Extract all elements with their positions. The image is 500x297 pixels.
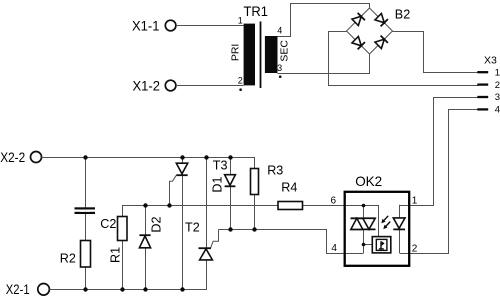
wire X1-2 to TR1 pin 2 <box>176 85 244 87</box>
svg-text:OK2: OK2 <box>355 173 382 189</box>
svg-text:1: 1 <box>495 67 500 78</box>
wire X1-1 to TR1 pin 1 <box>176 25 244 27</box>
svg-text:4: 4 <box>331 243 337 254</box>
resistor R3 <box>251 163 284 194</box>
wire X3 pin 4 to OK2 pin 2 <box>400 110 479 254</box>
TR1 primary winding <box>244 24 255 86</box>
node at 145,204.7 <box>143 203 147 207</box>
svg-text:2: 2 <box>495 80 500 91</box>
light arrows in OK2 <box>381 216 390 229</box>
TR1 core <box>260 22 262 89</box>
svg-text:1: 1 <box>238 15 243 25</box>
wire OK2 triac top lead <box>363 205 365 219</box>
bridge ring wire <box>347 8 393 54</box>
svg-text:2: 2 <box>412 244 418 255</box>
LED in OK2 <box>393 205 405 253</box>
svg-text:3: 3 <box>495 92 500 103</box>
thyristor T2 <box>185 220 212 260</box>
svg-text:1: 1 <box>412 195 418 206</box>
node at 182,289.3 <box>180 287 184 291</box>
svg-text:4: 4 <box>277 26 282 36</box>
thyristor T3 <box>176 159 227 176</box>
svg-text:SEC: SEC <box>279 40 291 62</box>
wire X2-2 top rail to R3 <box>42 158 255 170</box>
terminal X1-1 <box>132 17 176 33</box>
svg-text:T2: T2 <box>185 220 200 234</box>
diode D2 <box>139 217 163 248</box>
svg-text:4: 4 <box>495 105 500 116</box>
wire T3 branch <box>182 157 184 289</box>
svg-text:X1-1: X1-1 <box>132 17 160 33</box>
node at 230,229.4 <box>228 227 232 231</box>
bridge diode upper-right <box>375 13 384 22</box>
svg-text:2: 2 <box>238 75 243 85</box>
wire T2 gate <box>211 229 219 248</box>
connector X3 <box>477 55 500 116</box>
node at 206,157 <box>204 155 208 159</box>
node at 85,157 <box>83 155 87 159</box>
wire gate rail to OK2 pin 6 <box>123 206 379 238</box>
wire TR1 pin 3 to bridge bottom <box>278 55 370 74</box>
X3 pin 3 contact <box>477 96 488 98</box>
wire T3 gate <box>170 175 177 205</box>
svg-text:D1: D1 <box>211 177 225 193</box>
node OK2 zero-cross tap <box>362 243 366 247</box>
TR1 secondary winding <box>265 36 278 73</box>
wire X3 pin 3 to OK2 pin 1 <box>400 98 479 206</box>
node at 85,289.3 <box>83 287 87 291</box>
svg-text:X3: X3 <box>484 55 497 67</box>
node at 169.2,204.7 <box>167 203 171 207</box>
node at 254.3,229.4 <box>252 227 256 231</box>
polarity dot pin 3 <box>279 75 282 78</box>
svg-text:R3: R3 <box>267 163 283 177</box>
optocoupler OK2 box <box>330 173 417 266</box>
svg-text:X1-2: X1-2 <box>133 77 161 93</box>
node at 145,289.3 <box>143 287 147 291</box>
triac in OK2 <box>351 218 376 229</box>
node at 122.4,289.3 <box>120 287 124 291</box>
resistor R2 <box>60 241 91 268</box>
X3 pin 4 contact <box>477 108 488 110</box>
wire bridge DC+ to X3 pin 1 <box>393 32 479 73</box>
diode D1 <box>211 175 236 193</box>
wire C2 R2 branch <box>85 157 87 289</box>
bridge diode upper-left <box>352 16 361 25</box>
svg-text:R1: R1 <box>108 247 122 263</box>
terminal X2-2 <box>0 149 41 165</box>
transformer TR1 <box>229 3 290 91</box>
zero-cross block in OK2 <box>372 237 391 253</box>
svg-text:PRI: PRI <box>229 44 241 62</box>
svg-text:X2-2: X2-2 <box>0 149 25 165</box>
wire R3 bottom lead <box>254 195 256 230</box>
svg-text:3: 3 <box>277 63 282 73</box>
resistor R1 <box>108 217 127 263</box>
wire OK2 triac bottom lead <box>363 229 365 253</box>
wire D1 branch <box>230 157 232 229</box>
svg-text:6: 6 <box>330 195 336 206</box>
capacitor C2 <box>75 207 117 231</box>
X3 pin 2 contact <box>477 83 488 85</box>
resistor R4 <box>278 181 303 210</box>
svg-text:C2: C2 <box>100 217 116 231</box>
svg-text:X2-1: X2-1 <box>6 281 30 297</box>
svg-text:R4: R4 <box>281 181 297 195</box>
terminal X1-2 <box>133 77 176 93</box>
node at 230,157 <box>228 155 232 159</box>
svg-text:B2: B2 <box>395 8 410 22</box>
node OK2 triac top <box>362 204 366 208</box>
bridge diode lower-left <box>352 36 361 45</box>
wire OK2 zero-cross branch <box>363 244 372 246</box>
svg-text:D2: D2 <box>150 217 164 233</box>
wire bridge DC- to X3 pin 2 <box>329 32 479 86</box>
svg-text:TR1: TR1 <box>244 3 269 19</box>
svg-text:T3: T3 <box>213 159 228 173</box>
bridge diode lower-right <box>375 39 384 48</box>
terminal X2-1 <box>6 281 50 297</box>
X3 pin 1 contact <box>477 71 488 73</box>
wire gate rail to OK2 pin 4 <box>219 230 364 254</box>
node at 182,157 <box>180 155 184 159</box>
polarity dot pin 2 <box>239 88 242 91</box>
wire D2 branch <box>145 205 147 290</box>
bridge rectifier B2 <box>347 8 411 54</box>
wire TR1 pin 4 to bridge top <box>278 4 370 37</box>
wire X2-1 bottom rail to T2 anode <box>50 158 207 290</box>
svg-text:R2: R2 <box>60 252 76 266</box>
wire R1 branch <box>122 217 124 290</box>
